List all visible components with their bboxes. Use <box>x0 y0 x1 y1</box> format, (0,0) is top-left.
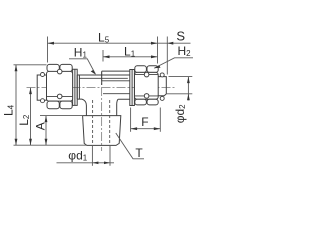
body raised right block <box>102 71 130 85</box>
A arrows <box>45 116 48 123</box>
L5 dim line <box>48 42 158 44</box>
svg-text:F: F <box>141 115 148 129</box>
horizontal centerline <box>27 87 177 89</box>
F arrows <box>131 127 138 130</box>
L5 arrows <box>48 42 55 45</box>
right tube end <box>158 77 167 96</box>
bottom shared extension <box>14 144 87 146</box>
H1 arrow <box>91 70 96 75</box>
right washer <box>130 70 135 106</box>
F <box>130 108 132 132</box>
L2 arrows <box>29 88 32 95</box>
phi d1 arrows <box>92 162 98 165</box>
S dim line <box>158 42 191 44</box>
H1 leader <box>69 59 95 74</box>
threaded stub trapezoid <box>83 116 121 146</box>
body main outline <box>77 75 130 99</box>
L1 <box>102 50 104 62</box>
svg-text:S: S <box>176 29 185 44</box>
svg-text:T: T <box>135 146 143 160</box>
left tube end <box>37 75 46 100</box>
vertical centerline of branch <box>101 72 103 151</box>
L4 arrows <box>15 65 18 72</box>
S arrow <box>167 42 173 45</box>
L1 arrows <box>103 55 110 58</box>
T leader <box>116 133 144 159</box>
branch neck with fillets <box>82 99 86 116</box>
L5 extension lines <box>47 37 49 63</box>
right nut <box>135 66 159 105</box>
phi d2 <box>169 76 193 78</box>
body sleeve lines <box>102 81 130 94</box>
phi d2 arrows <box>187 77 190 84</box>
A <box>40 115 82 117</box>
H2 leader <box>154 58 193 68</box>
thread dashed lines <box>93 100 110 145</box>
arrows <box>15 42 190 164</box>
phi d1 <box>91 146 93 166</box>
L2 <box>30 88 32 146</box>
dimension lines <box>14 37 194 166</box>
right tube circles <box>160 73 164 101</box>
H2 arrow <box>154 65 161 68</box>
L4 <box>14 64 47 66</box>
svg-text:A: A <box>34 122 48 130</box>
left nut <box>47 64 73 108</box>
left tube circles <box>41 73 45 103</box>
left washer <box>73 69 78 105</box>
body inner line <box>79 77 127 79</box>
